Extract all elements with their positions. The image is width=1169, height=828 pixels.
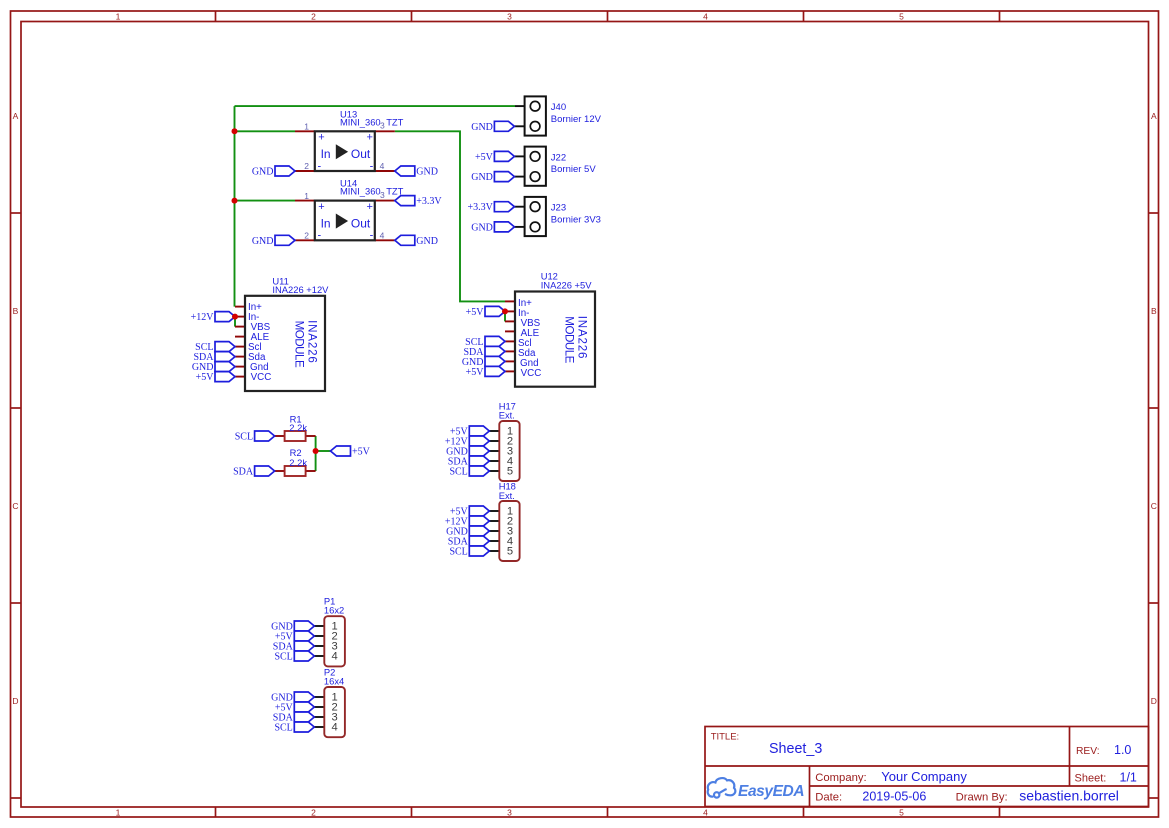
svg-text:Your Company: Your Company xyxy=(881,769,967,784)
header H17 Ext. xyxy=(489,400,519,481)
svg-text:Bornier 5V: Bornier 5V xyxy=(551,164,597,175)
svg-text:GND: GND xyxy=(471,172,493,183)
svg-text:4: 4 xyxy=(703,807,708,817)
header H18 Ext. xyxy=(489,481,519,562)
U14 body xyxy=(315,201,375,241)
net flag SCL at U12 Scl xyxy=(465,336,505,348)
net flag GND at J22 pin2 xyxy=(471,172,514,184)
svg-text:J40: J40 xyxy=(551,102,566,113)
net flag SCL at P1 pin4 xyxy=(274,651,314,663)
U11 body xyxy=(245,296,325,391)
regulator U14 MINI_360 TZT xyxy=(295,178,404,242)
svg-text:+5V: +5V xyxy=(466,307,485,318)
svg-text:-: - xyxy=(370,230,374,242)
net flag SCL at H17 pin5 xyxy=(449,466,489,478)
R2 pins xyxy=(275,470,285,472)
svg-text:Sheet:: Sheet: xyxy=(1075,773,1107,785)
svg-text:sebastien.borrel: sebastien.borrel xyxy=(1019,788,1119,804)
net flag GND at U14 pin4 xyxy=(395,235,438,247)
net flag GND at J40 pin2 xyxy=(471,121,514,133)
svg-text:MODULE: MODULE xyxy=(292,321,305,368)
svg-text:Sheet_3: Sheet_3 xyxy=(769,741,822,757)
U11 pins xyxy=(235,306,245,308)
svg-text:1: 1 xyxy=(116,807,121,817)
svg-text:SCL: SCL xyxy=(274,723,292,734)
J22 pins xyxy=(514,155,524,157)
svg-text:GND: GND xyxy=(471,122,493,133)
svg-text:1: 1 xyxy=(304,191,309,201)
U13 body xyxy=(315,131,375,171)
H17 body xyxy=(499,421,519,481)
junction at U11 In- xyxy=(232,314,238,320)
svg-text:+12V: +12V xyxy=(191,312,215,323)
svg-text:In: In xyxy=(321,147,331,161)
net flag +5V at J22 pin1 xyxy=(475,151,514,163)
svg-text:INA226 +12V: INA226 +12V xyxy=(272,284,329,295)
svg-text:REV:: REV: xyxy=(1076,746,1100,757)
connector J40 Bornier 12V xyxy=(514,96,601,135)
net flag +5V at H17 pin1 xyxy=(450,426,489,438)
svg-text:16x2: 16x2 xyxy=(324,604,344,615)
net flag GND at H17 pin3 xyxy=(446,446,489,458)
wire 12V net top horizontal xyxy=(235,105,516,107)
svg-text:5: 5 xyxy=(507,546,513,558)
svg-text:GND: GND xyxy=(416,236,438,247)
module U12 INA226 +5V xyxy=(505,271,595,387)
connector J22 Bornier 5V xyxy=(514,147,596,186)
svg-text:In: In xyxy=(321,216,331,230)
svg-text:5: 5 xyxy=(507,466,513,478)
svg-text:+5V: +5V xyxy=(466,367,485,378)
P1 pins xyxy=(314,625,324,627)
svg-text:GND: GND xyxy=(471,222,493,233)
J40 body xyxy=(525,96,546,135)
svg-text:SCL: SCL xyxy=(449,467,467,478)
svg-text:GND: GND xyxy=(416,167,438,178)
wire R1 to R2 vertical xyxy=(315,436,317,471)
net flag SDA at U11 Sda xyxy=(193,352,235,364)
U12 pin names xyxy=(518,298,541,379)
net flag SDA at R2 xyxy=(233,466,275,478)
J23 body xyxy=(525,197,546,236)
svg-text:1: 1 xyxy=(304,122,309,132)
svg-text:+3.3V: +3.3V xyxy=(468,202,494,213)
svg-text:4: 4 xyxy=(703,11,708,21)
svg-text:+5V: +5V xyxy=(475,152,494,163)
svg-text:2.2k: 2.2k xyxy=(289,457,307,468)
U12 body xyxy=(515,292,595,387)
net flag GND at U13 pin4 xyxy=(395,166,438,178)
svg-text:D: D xyxy=(12,696,18,706)
svg-text:2: 2 xyxy=(311,807,316,817)
svg-text:4: 4 xyxy=(331,651,337,663)
net flag SDA at P1 pin3 xyxy=(273,641,315,653)
svg-text:A: A xyxy=(13,111,19,121)
svg-text:Out: Out xyxy=(351,216,371,230)
net flag SDA at P2 pin3 xyxy=(273,712,315,724)
J23 pins xyxy=(514,206,524,208)
svg-text:+5V: +5V xyxy=(352,447,371,458)
P2 body xyxy=(324,687,345,737)
net flag GND at P1 pin1 xyxy=(271,621,314,633)
svg-text:VCC: VCC xyxy=(251,372,272,383)
wire junction to +5V flag xyxy=(316,450,331,452)
H18 pin numbers xyxy=(507,506,513,558)
svg-text:2: 2 xyxy=(311,11,316,21)
svg-text:Ext.: Ext. xyxy=(499,410,515,421)
header P2 16x4 xyxy=(314,666,345,737)
svg-text:VCC: VCC xyxy=(521,368,542,379)
wire 5V net from U13 pin 3 to U12 In+ xyxy=(395,131,505,301)
svg-text:+: + xyxy=(318,132,324,144)
EasyEDA logo xyxy=(708,778,736,797)
svg-text:3: 3 xyxy=(507,807,512,817)
net flag +12V at U11 In- xyxy=(191,312,235,324)
svg-text:4: 4 xyxy=(331,722,337,734)
svg-text:SCL: SCL xyxy=(235,432,253,443)
regulator U13 MINI_360 TZT xyxy=(295,108,404,172)
svg-text:2: 2 xyxy=(304,231,309,241)
svg-text:+3.3V: +3.3V xyxy=(416,196,442,207)
svg-text:Ext.: Ext. xyxy=(499,490,515,501)
H18 pins xyxy=(489,510,499,512)
title block xyxy=(705,727,1149,807)
net flag +3.3V at J23 pin1 xyxy=(468,202,515,214)
svg-text:J23: J23 xyxy=(551,203,566,214)
J40 pins xyxy=(515,105,525,107)
net flag +5V at P1 pin2 xyxy=(275,631,314,643)
U12 pins xyxy=(505,300,515,302)
svg-text:C: C xyxy=(1151,501,1157,511)
H17 pins xyxy=(489,430,499,432)
junction at U12 In- xyxy=(502,308,508,314)
svg-text:4: 4 xyxy=(380,161,385,171)
svg-text:5: 5 xyxy=(899,11,904,21)
svg-text:TITLE:: TITLE: xyxy=(711,731,740,742)
svg-text:SCL: SCL xyxy=(449,547,467,558)
svg-text:Date:: Date: xyxy=(815,792,842,804)
net flag GND at U12 Gnd xyxy=(462,356,505,368)
svg-text:3: 3 xyxy=(507,11,512,21)
net flag +5V at U12 VCC xyxy=(466,366,505,378)
svg-text:TZT: TZT xyxy=(386,116,403,127)
svg-text:16x4: 16x4 xyxy=(324,675,344,686)
svg-text:+5V: +5V xyxy=(196,372,215,383)
net flag +5V at H18 pin1 xyxy=(450,506,489,518)
R2 body xyxy=(285,466,306,476)
net flag GND at U13 pin2 xyxy=(252,166,295,178)
H17 pin numbers xyxy=(507,426,513,478)
module U11 INA226 +12V xyxy=(235,275,329,391)
wire U11 In- to VBS xyxy=(234,317,236,327)
net flag SCL at U11 Scl xyxy=(195,342,235,354)
U13 pins 1-4 xyxy=(295,130,315,132)
svg-text:SCL: SCL xyxy=(274,652,292,663)
svg-text:A: A xyxy=(1151,111,1157,121)
svg-text:Out: Out xyxy=(351,147,371,161)
R1 body xyxy=(285,431,306,441)
wire to U13 pin 1 xyxy=(235,130,296,132)
svg-text:B: B xyxy=(13,306,19,316)
svg-text:1.0: 1.0 xyxy=(1114,743,1131,757)
U11 pin names xyxy=(248,302,271,383)
net flag GND at U14 pin2 xyxy=(252,235,295,247)
svg-text:-: - xyxy=(317,230,321,242)
net flag GND at H18 pin3 xyxy=(446,526,489,538)
P1 body xyxy=(324,616,345,666)
svg-text:Bornier 3V3: Bornier 3V3 xyxy=(551,214,601,225)
P2 pin numbers xyxy=(331,692,337,734)
wire to U14 pin 1 xyxy=(235,200,296,202)
svg-text:-: - xyxy=(317,160,321,172)
net flag +5V at P2 pin2 xyxy=(275,702,314,714)
header P1 16x2 xyxy=(314,595,345,666)
junction at U14 pin1 xyxy=(232,198,238,204)
svg-text:2: 2 xyxy=(304,161,309,171)
net flag GND at P2 pin1 xyxy=(271,692,314,704)
net flag SDA at U12 Sda xyxy=(463,346,505,358)
svg-text:Drawn By:: Drawn By: xyxy=(956,792,1008,804)
net flag +12V at H17 pin2 xyxy=(445,436,489,448)
svg-text:INA226 +5V: INA226 +5V xyxy=(541,279,593,290)
svg-text:5: 5 xyxy=(899,807,904,817)
net flag SDA at H17 pin4 xyxy=(448,456,490,468)
net flag SDA at H18 pin4 xyxy=(448,536,490,548)
svg-text:+: + xyxy=(366,132,372,144)
P1 pin numbers xyxy=(331,621,337,663)
svg-text:Bornier 12V: Bornier 12V xyxy=(551,114,602,125)
junction at U13 pin1 xyxy=(232,128,238,134)
svg-text:3: 3 xyxy=(380,190,385,200)
svg-text:INA226: INA226 xyxy=(575,316,588,359)
svg-text:1/1: 1/1 xyxy=(1120,771,1137,785)
svg-text:EasyEDA: EasyEDA xyxy=(738,783,804,800)
J22 body xyxy=(525,147,546,186)
svg-text:MODULE: MODULE xyxy=(562,316,575,363)
P2 pins xyxy=(314,696,324,698)
svg-text:+: + xyxy=(318,201,324,213)
svg-text:-: - xyxy=(370,160,374,172)
net flag GND at U11 Gnd xyxy=(192,362,235,374)
junction at R1/R2/+5V node xyxy=(313,448,319,454)
svg-text:D: D xyxy=(1151,696,1157,706)
net flag SCL at H18 pin5 xyxy=(449,546,489,558)
H18 body xyxy=(499,501,519,561)
svg-text:2019-05-06: 2019-05-06 xyxy=(862,790,926,804)
connector J23 Bornier 3V3 xyxy=(514,197,601,236)
net flag +12V at H18 pin2 xyxy=(445,516,489,528)
wire U12 In- to VBS xyxy=(504,311,506,321)
svg-text:4: 4 xyxy=(380,231,385,241)
svg-text:MINI_360: MINI_360 xyxy=(340,186,381,197)
net flag +3.3V at U14 pin3 xyxy=(395,196,443,208)
net flag SCL at P2 pin4 xyxy=(274,722,314,734)
R1 pins xyxy=(275,435,285,437)
net flag GND at J23 pin2 xyxy=(471,222,514,234)
svg-text:GND: GND xyxy=(252,167,274,178)
net flag +5V at U11 VCC xyxy=(196,372,235,384)
resistor R1 2.2k xyxy=(275,413,316,441)
net flag SCL at R1 xyxy=(235,431,275,443)
svg-text:+: + xyxy=(366,201,372,213)
svg-text:3: 3 xyxy=(380,121,385,131)
svg-text:B: B xyxy=(1151,306,1157,316)
svg-text:1: 1 xyxy=(116,11,121,21)
svg-text:2.2k: 2.2k xyxy=(289,422,307,433)
net flag +5V at R1/R2 node xyxy=(331,446,371,458)
resistor R2 2.2k xyxy=(275,447,316,476)
svg-text:Company:: Company: xyxy=(815,772,867,784)
net flag +5V at U12 In- xyxy=(466,306,505,318)
U14 pins 1-4 xyxy=(295,200,315,202)
wire 12V net left vertical xyxy=(234,106,236,307)
svg-text:GND: GND xyxy=(252,236,274,247)
svg-text:MINI_360: MINI_360 xyxy=(340,116,381,127)
svg-text:J22: J22 xyxy=(551,152,566,163)
svg-text:INA226: INA226 xyxy=(305,320,318,363)
svg-text:C: C xyxy=(12,501,18,511)
svg-text:SDA: SDA xyxy=(233,467,254,478)
